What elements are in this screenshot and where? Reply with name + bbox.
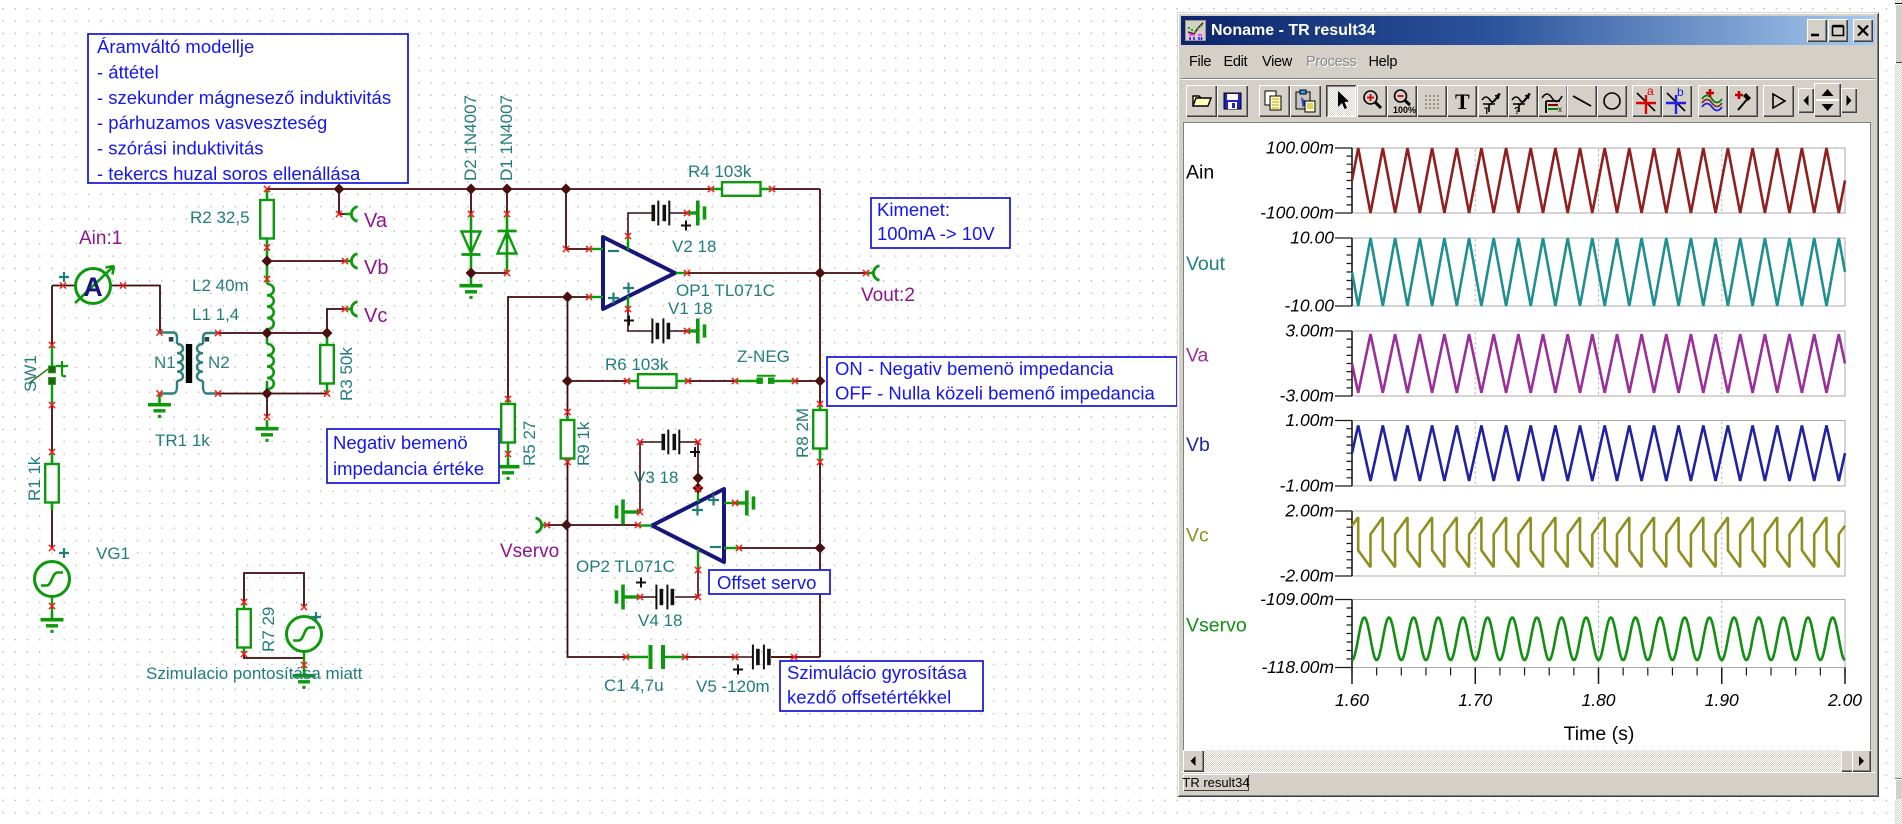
jumper terminal V4 [617,585,641,610]
note box Kimenet [871,198,1010,248]
scroll right arrow [1852,750,1871,772]
source VG1 [35,562,70,597]
svg-text:V1 18: V1 18 [668,299,712,318]
resistor R9 1k [566,416,569,462]
svg-text:V3 18: V3 18 [634,468,678,487]
toolbar nav spinner button [1814,83,1841,117]
svg-text:-100.00m: -100.00m [1260,203,1334,223]
svg-text:V4 18: V4 18 [638,611,682,630]
plot frame Vb [1352,421,1845,487]
svg-text:- párhuzamos vasveszteség: - párhuzamos vasveszteség [97,112,327,133]
svg-text:R2 32,5: R2 32,5 [190,208,250,227]
jumper terminal V1 [687,319,705,344]
waveform Vb [1352,425,1845,481]
wire op2 inverting output row [739,547,820,549]
toolbar [1181,78,1875,123]
wire V4 leads [640,570,698,597]
svg-text:kezdő offsetértékkel: kezdő offsetértékkel [787,687,951,708]
source VG2 at R7 [287,617,322,652]
scroll left arrow [1183,750,1204,772]
close button [1853,19,1873,42]
transformer TR1 1k [160,333,218,394]
terminal Vout [866,272,874,275]
node op2 inv [814,542,825,553]
battery V4 [656,585,674,610]
svg-text:100.00m: 100.00m [1266,138,1334,158]
note box Aramvalto modellje [88,34,408,183]
node L2-L1 [261,327,272,338]
node plus input [562,291,573,302]
svg-text:2.00m: 2.00m [1284,501,1334,521]
svg-text:impedancia értéke: impedancia értéke [333,458,484,479]
svg-text:C1 4,7u: C1 4,7u [604,676,664,695]
svg-text:1.80: 1.80 [1581,690,1615,710]
toolbar zoom in button [1357,85,1387,117]
svg-text:Vb: Vb [1186,434,1210,456]
node top rail D2 [465,183,476,194]
note box Negativ bemeno [327,429,499,483]
svg-text:100mA -> 10V: 100mA -> 10V [877,223,995,244]
resistor R6 103k [627,380,688,383]
toolbar nav left button [1798,88,1814,113]
ground below L1 [256,420,279,440]
node op2 output [561,519,572,530]
svg-text:Szimulacio pontosítása miatt: Szimulacio pontosítása miatt [146,664,363,683]
svg-text:10.00: 10.00 [1290,228,1334,248]
svg-text:-3.00m: -3.00m [1280,386,1334,406]
svg-text:Offset servo: Offset servo [717,572,816,593]
svg-text:R1 1k: R1 1k [25,456,44,501]
svg-text:L2 40m: L2 40m [192,276,249,295]
x axis ticks [1352,668,1845,676]
wire R7 loop bottom [244,654,304,658]
svg-text:3.00m: 3.00m [1285,321,1334,341]
node bottom center [261,388,272,399]
battery V2 [652,201,670,226]
svg-text:2.00: 2.00 [1827,690,1862,710]
svg-text:R8 2M: R8 2M [793,408,812,458]
svg-text:Va: Va [364,210,388,232]
jumper terminal V2 [687,201,705,226]
node V3 pin [692,472,703,483]
svg-text:?: ? [1514,106,1520,117]
wire R9 vertical lower [568,462,627,657]
ground at VG2 [293,667,316,687]
wire V2 supply leads [628,213,687,236]
svg-text:R6 103k: R6 103k [605,355,669,374]
svg-text:- szórási induktivitás: - szórási induktivitás [97,138,264,159]
inductor L1 1,4 [266,333,269,394]
waveform Vservo [1352,617,1845,660]
wire Vservo row [547,524,638,526]
terminal Vservo [540,524,547,527]
node Vb [261,255,272,266]
op-amp OP1 TL071C [603,237,675,309]
node top rail Va tap [333,183,344,194]
ammeter Ain [76,269,111,304]
switch Z-NEG [735,380,757,383]
toolbar zoom 100% button [1387,85,1417,117]
toolbar circle button [1597,85,1627,117]
svg-text:ON - Negativ bemenö impedancia: ON - Negativ bemenö impedancia [835,358,1114,379]
capacitor C1 4,7u [626,656,648,658]
svg-text:Z-NEG: Z-NEG [737,347,790,366]
svg-text:N1: N1 [154,353,176,372]
svg-text:T: T [1484,106,1490,116]
wire op1 noninverting input to R5 [508,297,590,399]
resistor R3 50k [326,333,329,394]
svg-text:Áramváltó modellje: Áramváltó modellje [97,36,254,57]
svg-text:SW1: SW1 [21,355,40,392]
toolbar play button [1763,85,1794,117]
svg-text:R3 50k: R3 50k [337,347,356,401]
svg-text:Ain:1: Ain:1 [79,228,122,249]
svg-text:Vout:2: Vout:2 [861,285,915,306]
svg-text:R9 1k: R9 1k [574,421,593,466]
svg-text:OFF - Nulla közeli bemenő impe: OFF - Nulla közeli bemenő impedancia [835,383,1155,404]
maximize button [1828,19,1848,42]
svg-text:A: A [83,272,103,302]
terminal x marks [49,186,869,668]
svg-text:R5 27: R5 27 [520,421,539,466]
waveform Vout [1352,238,1845,306]
plot frame Vc [1352,511,1845,576]
inductor L2 40m [266,261,269,333]
wire V3 leads [640,442,698,512]
wire diode taps from top rail [471,189,507,214]
svg-text:-118.00m: -118.00m [1261,657,1334,677]
svg-text:100%: 100% [1393,105,1416,115]
terminal Vc [345,308,352,311]
resistor R4 103k [711,188,772,191]
svg-text:-2.00m: -2.00m [1280,566,1334,586]
svg-text:Vservo: Vservo [500,541,559,562]
svg-text:- tekercs huzal soros ellenáll: - tekercs huzal soros ellenállása [97,163,361,184]
plot frame Va [1352,331,1845,396]
jumper terminal V3 [617,500,641,525]
wire bottom row C1 V5 [685,656,794,658]
resistor R1 1k [51,452,54,510]
svg-text:D1 1N4007: D1 1N4007 [497,95,516,181]
wire R6 row [568,380,821,382]
toolbar select arrow button (pressed) [1326,85,1356,117]
svg-text:Kimenet:: Kimenet: [877,199,950,220]
battery V5 -120m [735,656,794,658]
svg-text:-10.00: -10.00 [1284,296,1334,316]
wire Vc tap [327,309,345,333]
svg-text:OP2 TL071C: OP2 TL071C [576,557,675,576]
wire N2 top to L1/R3 rail [218,332,327,334]
wire right bus vertical x=820 [794,189,820,657]
toolbar paste button [1290,85,1321,117]
node Vout [814,267,825,278]
svg-text:TR1 1k: TR1 1k [155,431,210,450]
svg-text:Szimulácio gyrosítása: Szimulácio gyrosítása [787,662,968,683]
svg-text:L1 1,4: L1 1,4 [192,305,239,324]
svg-text:1.70: 1.70 [1458,690,1492,710]
plot frame Vservo [1352,600,1845,668]
svg-text:x: x [1558,105,1562,114]
note box ON OFF [827,357,1177,406]
node top rail D1 [501,183,512,194]
svg-text:Vb: Vb [364,257,388,279]
plot client area [1183,122,1871,752]
window title bar [1181,16,1875,45]
battery V1 [652,319,670,344]
toolbar add-curves button [1698,85,1728,117]
wire R7 loop top [244,573,304,607]
svg-text:Time (s): Time (s) [1564,723,1635,745]
background window scrollbar fragment [1895,0,1902,824]
toolbar cursor-b button [1662,85,1692,117]
resistor R8 2M [819,404,822,462]
svg-text:R4 103k: R4 103k [688,162,752,181]
transformer core [186,344,192,383]
svg-text:T: T [1455,89,1470,114]
minimize button [1807,19,1827,42]
ground at VG1 [41,611,64,631]
wire top rail from R2 to right bus [267,188,820,190]
transformer sync dots [169,337,174,342]
switch SW1 [51,346,53,366]
resistor R7 29 [243,602,246,654]
diode D1 1N4007 [506,214,509,273]
node diode ground [465,267,476,278]
note box Szimulacio gyorsitasa [780,661,983,711]
battery V3 [662,430,680,455]
toolbar copy button [1259,85,1290,117]
svg-text:D2 1N4007: D2 1N4007 [461,95,480,181]
toolbar line button [1567,85,1597,117]
wire ammeter right to transformer [111,286,160,333]
plot frame Ain [1352,148,1845,213]
horizontal scrollbar [1183,750,1871,772]
resistor R5 27 [507,399,510,454]
svg-text:- szekunder mágnesező induktiv: - szekunder mágnesező induktivitás [97,87,391,108]
node V3 pin lower [692,482,703,493]
svg-text:N2: N2 [208,353,230,372]
jumper terminal OP2 noninverting [736,491,754,516]
wire Vb tap [267,260,345,262]
toolbar cursor-a button [1632,85,1662,117]
ground at R5 [507,454,509,458]
node R3 top [321,327,332,338]
terminal Va [345,213,352,216]
plot frame Vout [1352,238,1845,306]
toolbar open button [1186,85,1217,117]
node R6 left [562,375,573,386]
wire center node down to ground [266,394,268,418]
svg-text:- áttétel: - áttétel [97,61,159,82]
ground at N1 [158,394,160,397]
wire N2 bottom rail [218,393,327,395]
svg-text:a: a [1647,85,1654,98]
wire V1 supply leads [628,309,687,331]
waveform Va [1352,334,1845,393]
toolbar grid button (disabled) [1417,85,1447,117]
wire op1 inverting input from top rail [566,189,590,249]
svg-text:-1.00m: -1.00m [1280,476,1334,496]
note box Offset servo [709,570,830,594]
wire R9 vertical upper [567,297,569,416]
diode D2 1N4007 [470,214,473,273]
wire ammeter left to SW1 and down [52,286,75,549]
result tab row [1181,772,1875,793]
svg-text:Negativ bemenö: Negativ bemenö [333,432,468,453]
svg-text:R7 29: R7 29 [259,607,278,652]
svg-text:V5 -120m: V5 -120m [696,677,770,696]
svg-text:b: b [1677,85,1684,99]
node R6 right [814,375,825,386]
scroll thumb [1841,750,1855,772]
svg-text:Vc: Vc [364,305,387,327]
svg-text:V2 18: V2 18 [672,237,716,256]
waveform Vc [1352,517,1845,567]
waveform Ain [1352,148,1845,213]
svg-text:Ain: Ain [1186,162,1214,184]
menu bar [1181,45,1875,78]
toolbar text button [1447,85,1477,117]
svg-text:1.00m: 1.00m [1285,410,1334,430]
svg-text:Va: Va [1186,345,1209,367]
svg-text:1.90: 1.90 [1705,690,1739,710]
toolbar nav right button [1841,88,1857,113]
wire V3 pin to op2 [697,478,699,489]
toolbar axis ? button [1508,85,1538,117]
ground at diodes [470,273,472,277]
svg-text:OP1 TL071C: OP1 TL071C [676,281,775,300]
terminal Vb [345,260,352,263]
wire op1 output to Vout [687,272,866,274]
toolbar axis T button [1478,85,1508,117]
svg-text:Vout: Vout [1186,253,1226,275]
wire diode bottoms to ground node [471,272,507,274]
node top rail opamp branch [560,183,571,194]
toolbar probe button [1728,85,1758,117]
resistor R2 32,5 [266,189,269,261]
op-amp OP2 TL071C [652,489,724,562]
toolbar save button [1217,85,1248,117]
svg-text:-109.00m: -109.00m [1260,589,1334,609]
svg-text:Vservo: Vservo [1186,615,1247,637]
svg-text:VG1: VG1 [96,544,130,563]
wire Va tap [339,189,345,214]
svg-text:1.60: 1.60 [1335,690,1369,710]
toolbar legend button [1538,85,1568,117]
svg-text:Vc: Vc [1186,525,1209,547]
